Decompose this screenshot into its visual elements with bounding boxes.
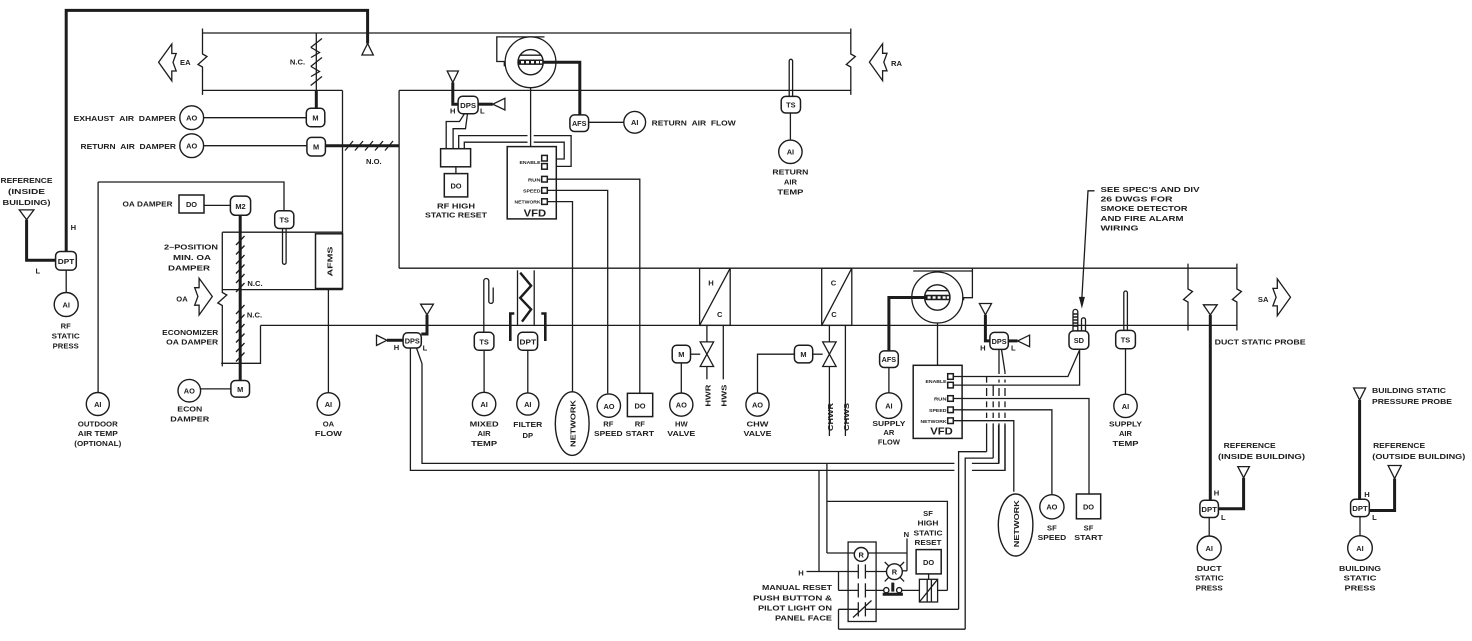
wire heavy reference loop: [66, 10, 367, 251]
AO econ damper: [178, 379, 201, 402]
VFD RF terminal labels: [515, 160, 542, 206]
flag reference inside building: [19, 210, 34, 220]
M2 OA damper actuator: [230, 196, 250, 215]
TS return air probe: [789, 59, 792, 96]
svg-text:BUILDING: BUILDING: [1339, 564, 1381, 573]
AO RF speed: [597, 394, 620, 417]
TS mixed air probe: [484, 279, 493, 333]
svg-text:STATIC: STATIC: [1344, 574, 1378, 583]
svg-text:STATIC RESET: STATIC RESET: [425, 211, 487, 220]
DO OA damper: [179, 195, 204, 213]
svg-text:BUILDING STATIC: BUILDING STATIC: [1372, 386, 1447, 395]
svg-text:NETWORK: NETWORK: [1012, 500, 1021, 548]
svg-text:HWS: HWS: [720, 385, 729, 407]
svg-text:RETURN AIR FLOW: RETURN AIR FLOW: [652, 118, 737, 127]
M return air damper actuator: [307, 137, 326, 156]
OA intake bottom step: [221, 325, 260, 363]
svg-text:NETWORK: NETWORK: [569, 399, 578, 447]
svg-text:SF: SF: [923, 509, 933, 518]
AO CHW valve: [746, 393, 769, 416]
label SUPPLY AIR TEMP: [1109, 419, 1142, 448]
svg-text:HWR: HWR: [703, 384, 712, 407]
duct break left end: [198, 29, 207, 95]
duct break mid: [1184, 264, 1193, 331]
svg-text:H: H: [798, 568, 803, 577]
flag duct static probe: [1203, 305, 1217, 315]
label RF SPEED: [594, 420, 623, 439]
wire AO to M return: [204, 145, 307, 147]
svg-text:HIGH: HIGH: [918, 519, 939, 528]
wire relay chain 2: [965, 385, 993, 629]
svg-text:PANEL FACE: PANEL FACE: [775, 614, 832, 623]
svg-text:RF: RF: [603, 420, 613, 429]
svg-text:CHWR: CHWR: [826, 402, 835, 431]
svg-text:AFS: AFS: [572, 119, 587, 128]
svg-text:N: N: [904, 530, 909, 539]
wire NETWORK to ellipse: [547, 202, 572, 392]
svg-text:SPEED: SPEED: [594, 429, 623, 438]
mixing box left wall: [398, 90, 400, 268]
svg-text:C: C: [831, 310, 837, 319]
svg-text:SEE SPEC'S AND DIV: SEE SPEC'S AND DIV: [1101, 185, 1201, 194]
NETWORK RF ellipse: [555, 392, 589, 456]
svg-text:SUPPLY: SUPPLY: [1109, 419, 1142, 428]
svg-text:VALVE: VALVE: [667, 429, 695, 438]
M exhaust damper actuator: [306, 108, 325, 127]
svg-text:DO: DO: [186, 200, 197, 209]
label ECONOMIZER OA DAMPER: [162, 328, 219, 347]
svg-text:ECON: ECON: [177, 405, 202, 414]
supply fan scroll: [912, 268, 973, 323]
VFD RF terminals: [542, 155, 548, 204]
label BUILDING STATIC PRESSURE PROBE: [1372, 386, 1452, 406]
label 2-POSITION MIN. OA DAMPER: [164, 243, 218, 273]
wire relay chain 1: [959, 377, 987, 610]
svg-text:PRESS: PRESS: [1196, 584, 1223, 593]
svg-text:STATIC: STATIC: [52, 332, 81, 341]
svg-text:NETWORK: NETWORK: [921, 419, 947, 425]
svg-text:H: H: [708, 279, 713, 288]
svg-text:DPS: DPS: [405, 336, 420, 345]
CHW valve: [823, 342, 836, 367]
wire N drop: [906, 539, 908, 571]
svg-text:TEMP: TEMP: [777, 187, 803, 196]
wire DO to M2: [204, 204, 230, 206]
svg-text:MANUAL RESET: MANUAL RESET: [762, 583, 832, 592]
wire AFMS to AI OA flow: [327, 290, 329, 393]
DO SF start: [1076, 494, 1100, 519]
svg-text:AO: AO: [752, 401, 763, 410]
label OA FLOW: [315, 419, 343, 438]
wire probe to DPT: [1209, 315, 1212, 500]
flag RF high static: [447, 71, 458, 83]
AI mixed air temp: [472, 392, 495, 415]
wire RF line2 cont: [972, 425, 1005, 470]
wire DPS SF down 2 diagonal: [1002, 349, 1006, 470]
wire fan to AFS supply: [889, 298, 925, 351]
svg-text:DPS: DPS: [992, 337, 1007, 346]
AO return air damper: [180, 134, 204, 158]
svg-text:H: H: [1364, 490, 1369, 499]
wire switch to DO: [455, 167, 457, 174]
svg-text:AI: AI: [524, 400, 531, 409]
RF high static switch box: [441, 149, 471, 167]
wire flag to DPT L: [27, 220, 56, 261]
DPS SF high static: [990, 332, 1008, 349]
svg-text:BUILDING): BUILDING): [3, 198, 52, 207]
svg-text:AO: AO: [676, 401, 687, 410]
flag reference inside: [1238, 467, 1250, 478]
svg-text:EA: EA: [180, 58, 191, 67]
VFD RF box: [507, 147, 556, 219]
AFS return: [570, 115, 589, 132]
flag RF low static: [421, 304, 434, 315]
wire row3 to bottom: [838, 609, 840, 629]
VFD SF terminal labels: [921, 379, 948, 425]
contact row3 NC: [839, 601, 959, 618]
TS mixed air: [474, 332, 494, 350]
svg-text:REFERENCE: REFERENCE: [1373, 441, 1425, 450]
svg-text:VFD: VFD: [524, 208, 547, 219]
svg-text:N.C.: N.C.: [247, 279, 262, 288]
wire crossbox return: [827, 501, 948, 590]
svg-text:EXHAUST AIR DAMPER: EXHAUST AIR DAMPER: [74, 114, 177, 123]
wire ENABLE1 to SD: [953, 351, 1079, 377]
wire DO to crossbox: [928, 574, 930, 579]
svg-text:(OPTIONAL): (OPTIONAL): [74, 439, 121, 448]
DO SF high static reset: [916, 550, 941, 574]
svg-text:SUPPLY: SUPPLY: [872, 419, 905, 428]
svg-text:AI: AI: [787, 148, 794, 157]
svg-text:SF: SF: [1047, 524, 1057, 533]
svg-text:M: M: [312, 114, 318, 123]
N.O. damper hatches: [345, 141, 393, 151]
AFMS box: [316, 234, 343, 289]
svg-text:AI: AI: [325, 400, 332, 409]
supply duct bottom line: [261, 324, 1237, 326]
note leader arrow: [1079, 191, 1095, 309]
wire EA damper to M: [315, 90, 318, 108]
svg-text:L: L: [35, 267, 40, 276]
svg-text:DO: DO: [1083, 503, 1094, 512]
EA damper: [311, 33, 322, 90]
svg-text:(INSIDE: (INSIDE: [8, 187, 45, 196]
wire RUN to SF START: [953, 399, 1089, 495]
wire row1 to row2: [838, 572, 840, 591]
label ECON DAMPER: [170, 405, 210, 424]
svg-text:OA DAMPER: OA DAMPER: [123, 200, 174, 209]
svg-text:(OUTSIDE BUILDING): (OUTSIDE BUILDING): [1372, 452, 1466, 461]
svg-text:SD: SD: [1074, 336, 1085, 345]
svg-text:OUTDOOR: OUTDOOR: [78, 419, 119, 428]
CHW pipe return: [828, 325, 830, 342]
svg-text:C: C: [717, 310, 723, 319]
SD smoke detector tubes: [1073, 309, 1086, 331]
flag building static probe: [1354, 388, 1366, 400]
wire flag to DPS: [453, 83, 458, 105]
wire R row: [827, 552, 907, 554]
svg-text:H: H: [394, 343, 399, 352]
label CHW VALVE: [744, 419, 772, 438]
svg-text:RETURN AIR DAMPER: RETURN AIR DAMPER: [81, 142, 177, 151]
AI outdoor air temp: [86, 393, 109, 416]
TS OA probe: [283, 229, 287, 265]
svg-text:RUN: RUN: [528, 177, 541, 183]
AFS supply: [880, 351, 899, 368]
svg-text:SMOKE DETECTOR: SMOKE DETECTOR: [1101, 204, 1189, 213]
wire RF line1 cont: [972, 425, 999, 463]
contact row1: [858, 564, 886, 578]
svg-text:TS: TS: [786, 101, 796, 110]
svg-text:AFMS: AFMS: [326, 247, 335, 277]
svg-text:AO: AO: [186, 114, 197, 123]
svg-text:SPEED: SPEED: [1038, 533, 1067, 542]
wire M to CHW valve: [813, 353, 823, 355]
wire DPS to reset switch 2: [453, 114, 467, 149]
svg-text:MIXED: MIXED: [470, 419, 500, 428]
AI filter dp: [517, 393, 539, 415]
svg-text:REFERENCE: REFERENCE: [1224, 441, 1276, 450]
wire fan down to SF VFD: [937, 323, 939, 365]
relay box: [848, 542, 876, 622]
svg-text:DO: DO: [450, 182, 461, 191]
wire NETWORK to SF ellipse: [953, 421, 1014, 492]
svg-text:AND FIRE ALARM: AND FIRE ALARM: [1101, 214, 1184, 223]
svg-text:DPT: DPT: [520, 337, 537, 346]
DO RF high static reset: [444, 174, 467, 197]
wire DPT to AI: [65, 270, 67, 293]
svg-text:HW: HW: [675, 419, 688, 428]
label FILTER DP: [513, 420, 543, 440]
svg-text:AO: AO: [603, 402, 614, 411]
DPS RF duct static: [403, 333, 421, 348]
return fan scroll: [497, 37, 556, 88]
label OUTDOOR AIR TEMP (OPTIONAL): [74, 419, 121, 448]
wire outside flag to DPT: [1369, 479, 1394, 511]
wire M to AO: [680, 363, 682, 393]
OA plenum left wall with break: [218, 232, 227, 366]
flag reference outside: [1388, 466, 1401, 479]
HW pipe below valve: [706, 367, 708, 380]
svg-text:RF: RF: [61, 322, 71, 331]
svg-text:N.O.: N.O.: [366, 157, 382, 166]
wire reference flag to DPT: [1218, 478, 1243, 509]
svg-text:AO: AO: [186, 142, 197, 151]
label REFERENCE (INSIDE BUILDING): [1, 176, 53, 207]
HW supply pipe: [722, 325, 724, 379]
svg-text:DO: DO: [634, 401, 645, 410]
TS outdoor air: [275, 211, 294, 229]
svg-text:RA: RA: [891, 59, 902, 68]
CHW supply pipe: [844, 325, 846, 436]
svg-text:RF HIGH: RF HIGH: [437, 202, 475, 211]
wire DPS down right: [417, 348, 955, 463]
svg-text:MIN. OA: MIN. OA: [173, 253, 212, 262]
wire down to AI outdoor air temp: [97, 182, 99, 393]
DPT building static: [1351, 499, 1370, 516]
svg-text:TS: TS: [1121, 336, 1131, 345]
label RF START: [626, 420, 655, 439]
svg-text:L: L: [1011, 344, 1016, 353]
svg-text:RESET: RESET: [915, 538, 942, 547]
wire RUN to RF START: [547, 179, 640, 393]
economizer damper hatches: [236, 305, 245, 362]
wire flag to DPS L: [421, 315, 427, 334]
wire AFS to AI: [589, 121, 624, 123]
svg-text:TEMP: TEMP: [1113, 439, 1139, 448]
AI building static press: [1348, 536, 1373, 561]
EA arrow: [159, 44, 177, 81]
wire crossbox right: [938, 589, 948, 591]
wire fan to AFS: [543, 62, 580, 115]
svg-text:DAMPER: DAMPER: [170, 414, 210, 423]
wire TS to AI mixed: [483, 350, 485, 392]
wire TS to AI return temp: [789, 113, 791, 140]
svg-text:START: START: [626, 429, 655, 438]
DPS RF high static: [458, 96, 478, 114]
HW valve: [700, 342, 713, 367]
label SF START: [1074, 524, 1103, 542]
M economizer damper actuator: [231, 381, 250, 398]
2-position damper hatches: [236, 236, 245, 292]
svg-text:H: H: [450, 107, 455, 116]
svg-text:OA: OA: [176, 294, 188, 303]
svg-text:RF: RF: [635, 420, 645, 429]
wire AFS to AI supply flow: [888, 368, 890, 393]
duct break right end: [846, 29, 855, 95]
return duct bottom line right: [399, 89, 851, 91]
svg-text:AI: AI: [1122, 402, 1129, 411]
svg-text:AI: AI: [62, 300, 69, 309]
svg-text:RUN: RUN: [934, 397, 947, 403]
svg-text:CHW: CHW: [747, 419, 770, 428]
wire M to valve: [691, 353, 701, 355]
wire pilot to N: [902, 570, 907, 572]
wire AO to M exhaust: [204, 117, 307, 119]
svg-text:ECONOMIZER: ECONOMIZER: [162, 328, 219, 337]
svg-text:DO: DO: [923, 558, 934, 567]
SD smoke detector: [1069, 331, 1089, 349]
wire branch to H row: [818, 470, 820, 571]
svg-text:PRESSURE PROBE: PRESSURE PROBE: [1372, 397, 1452, 406]
svg-text:SF: SF: [1084, 524, 1094, 533]
svg-text:H: H: [980, 344, 985, 353]
note SEE SPEC'S: [1101, 185, 1201, 233]
svg-text:WIRING: WIRING: [1101, 224, 1139, 233]
svg-text:DPT: DPT: [1352, 504, 1368, 513]
svg-text:NETWORK: NETWORK: [515, 200, 541, 206]
svg-text:N.C.: N.C.: [247, 310, 262, 319]
wire DPT to AI building static: [1359, 517, 1361, 536]
svg-text:OA DAMPER: OA DAMPER: [166, 337, 219, 346]
svg-text:2–POSITION: 2–POSITION: [164, 243, 218, 252]
label RF HIGH STATIC RESET: [425, 202, 487, 220]
label BUILDING STATIC PRESS: [1339, 564, 1381, 593]
svg-text:STATIC: STATIC: [1195, 574, 1225, 583]
TS supply probe: [1124, 291, 1128, 330]
svg-text:FLOW: FLOW: [878, 438, 901, 447]
svg-text:DP: DP: [523, 431, 534, 440]
label SUPPLY AR FLOW: [872, 419, 905, 447]
pilot light R: [885, 562, 904, 581]
AI supply air temp: [1114, 394, 1137, 417]
label RF STATIC PRESS: [52, 322, 81, 351]
svg-text:PRESS: PRESS: [1345, 584, 1376, 593]
M CHW valve actuator: [794, 345, 812, 363]
svg-text:AI: AI: [885, 402, 892, 411]
label SF SPEED: [1038, 524, 1067, 542]
svg-text:AR: AR: [883, 428, 894, 437]
svg-text:R: R: [892, 568, 898, 577]
label HW VALVE: [667, 419, 695, 438]
svg-text:VALVE: VALVE: [744, 429, 772, 438]
AO exhaust air damper: [180, 106, 204, 130]
svg-text:AIR: AIR: [1119, 429, 1133, 438]
filter: [518, 270, 535, 325]
wire M2 to econ M damper shaft: [239, 215, 242, 380]
supply duct top line: [399, 267, 1237, 269]
svg-text:PILOT LIGHT ON: PILOT LIGHT ON: [758, 603, 832, 612]
wire enable A switch to VFD: [459, 136, 528, 149]
svg-text:TS: TS: [279, 216, 289, 225]
svg-text:M: M: [313, 143, 319, 152]
return fan wheel: [518, 50, 543, 75]
svg-text:L: L: [1372, 513, 1377, 522]
horn RF high static: [478, 98, 505, 110]
svg-text:SPEED: SPEED: [929, 408, 947, 414]
flag at EA duct: [362, 44, 373, 56]
wire ENABLE2 to SD: [953, 349, 1079, 385]
wire TS to AI supply temp: [1125, 349, 1127, 395]
svg-text:SA: SA: [1258, 295, 1269, 304]
svg-text:AI: AI: [480, 400, 487, 409]
label MIXED AIR TEMP: [470, 419, 500, 448]
AI return air temp: [779, 140, 802, 163]
svg-text:PUSH BUTTON &: PUSH BUTTON &: [753, 593, 833, 602]
label DUCT STATIC PRESS: [1195, 564, 1225, 593]
label REFERENCE (OUTSIDE BUILDING): [1372, 441, 1466, 461]
svg-text:AIR TEMP: AIR TEMP: [78, 429, 118, 438]
AO HW valve: [670, 393, 693, 416]
wire DPS down left: [410, 348, 954, 470]
AI duct static press: [1197, 536, 1221, 560]
OA plenum top: [222, 231, 342, 233]
svg-text:PRESS: PRESS: [53, 342, 79, 351]
svg-text:VFD: VFD: [930, 427, 953, 438]
svg-text:(INSIDE BUILDING): (INSIDE BUILDING): [1218, 452, 1306, 461]
svg-text:START: START: [1074, 533, 1103, 542]
wire M to AO CHW: [758, 354, 795, 393]
wire building probe to DPT: [1358, 400, 1361, 499]
svg-text:ENABLE: ENABLE: [520, 160, 542, 166]
wire SPEED to RF SPEED: [547, 190, 607, 393]
svg-text:DPS: DPS: [460, 101, 476, 110]
filter DP taps: [510, 314, 545, 342]
wire bottom row: [839, 628, 966, 630]
OA arrow: [195, 278, 213, 315]
cooling coil: [822, 268, 852, 325]
RA arrow: [869, 44, 887, 81]
svg-text:M: M: [678, 350, 684, 359]
wire fan down to VFD: [530, 88, 532, 147]
svg-text:AI: AI: [1205, 544, 1212, 553]
wire enable B switch to VFD: [464, 142, 527, 149]
DPT duct static: [1200, 500, 1219, 517]
wire DPS SF down 1: [998, 349, 1000, 463]
CHW pipe below valve: [828, 367, 830, 437]
svg-text:AIR: AIR: [478, 429, 492, 438]
svg-text:AI: AI: [1356, 544, 1363, 553]
